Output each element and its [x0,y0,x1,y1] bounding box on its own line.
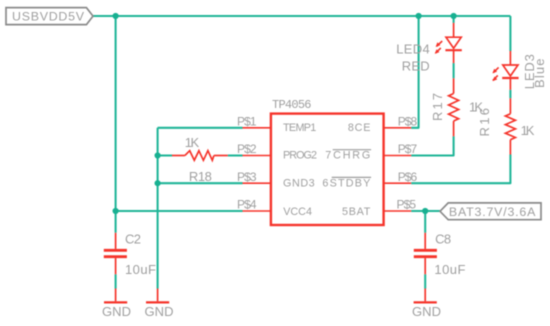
svg-text:1K: 1K [469,100,483,115]
svg-text:RED: RED [402,59,430,74]
svg-text:1K: 1K [521,123,535,138]
svg-text:GND: GND [102,304,131,319]
svg-text:Blue: Blue [532,59,547,89]
svg-text:GND3: GND3 [283,177,315,189]
svg-text:LED4: LED4 [396,41,430,56]
svg-text:10uF: 10uF [125,262,156,277]
svg-text:PROG2: PROG2 [283,150,317,162]
svg-text:10uF: 10uF [434,262,465,277]
svg-text:P$8: P$8 [398,115,418,129]
svg-text:R18: R18 [189,169,212,184]
svg-text:P$7: P$7 [398,142,418,156]
svg-text:C8: C8 [435,231,451,246]
svg-text:P$1: P$1 [237,115,257,129]
svg-text:8CE: 8CE [348,122,371,134]
svg-text:TP4056: TP4056 [272,98,312,112]
svg-text:P$6: P$6 [398,170,418,184]
svg-text:P$3: P$3 [237,170,257,184]
svg-text:USBVDD5V: USBVDD5V [12,10,85,24]
svg-text:7CHRG: 7CHRG [325,150,370,162]
svg-text:6STDBY: 6STDBY [322,177,370,189]
svg-text:1K: 1K [185,135,200,150]
svg-text:P$2: P$2 [237,142,257,156]
svg-text:5BAT: 5BAT [342,206,371,218]
svg-text:C2: C2 [125,231,141,246]
svg-text:GND: GND [412,304,441,319]
svg-text:P$4: P$4 [237,198,257,212]
svg-text:R17: R17 [430,93,445,121]
svg-text:BAT3.7V/3.6A: BAT3.7V/3.6A [449,205,536,219]
svg-text:P$5: P$5 [397,198,417,212]
svg-text:TEMP1: TEMP1 [283,122,316,134]
svg-text:GND: GND [145,304,174,319]
svg-text:VCC4: VCC4 [283,206,312,218]
